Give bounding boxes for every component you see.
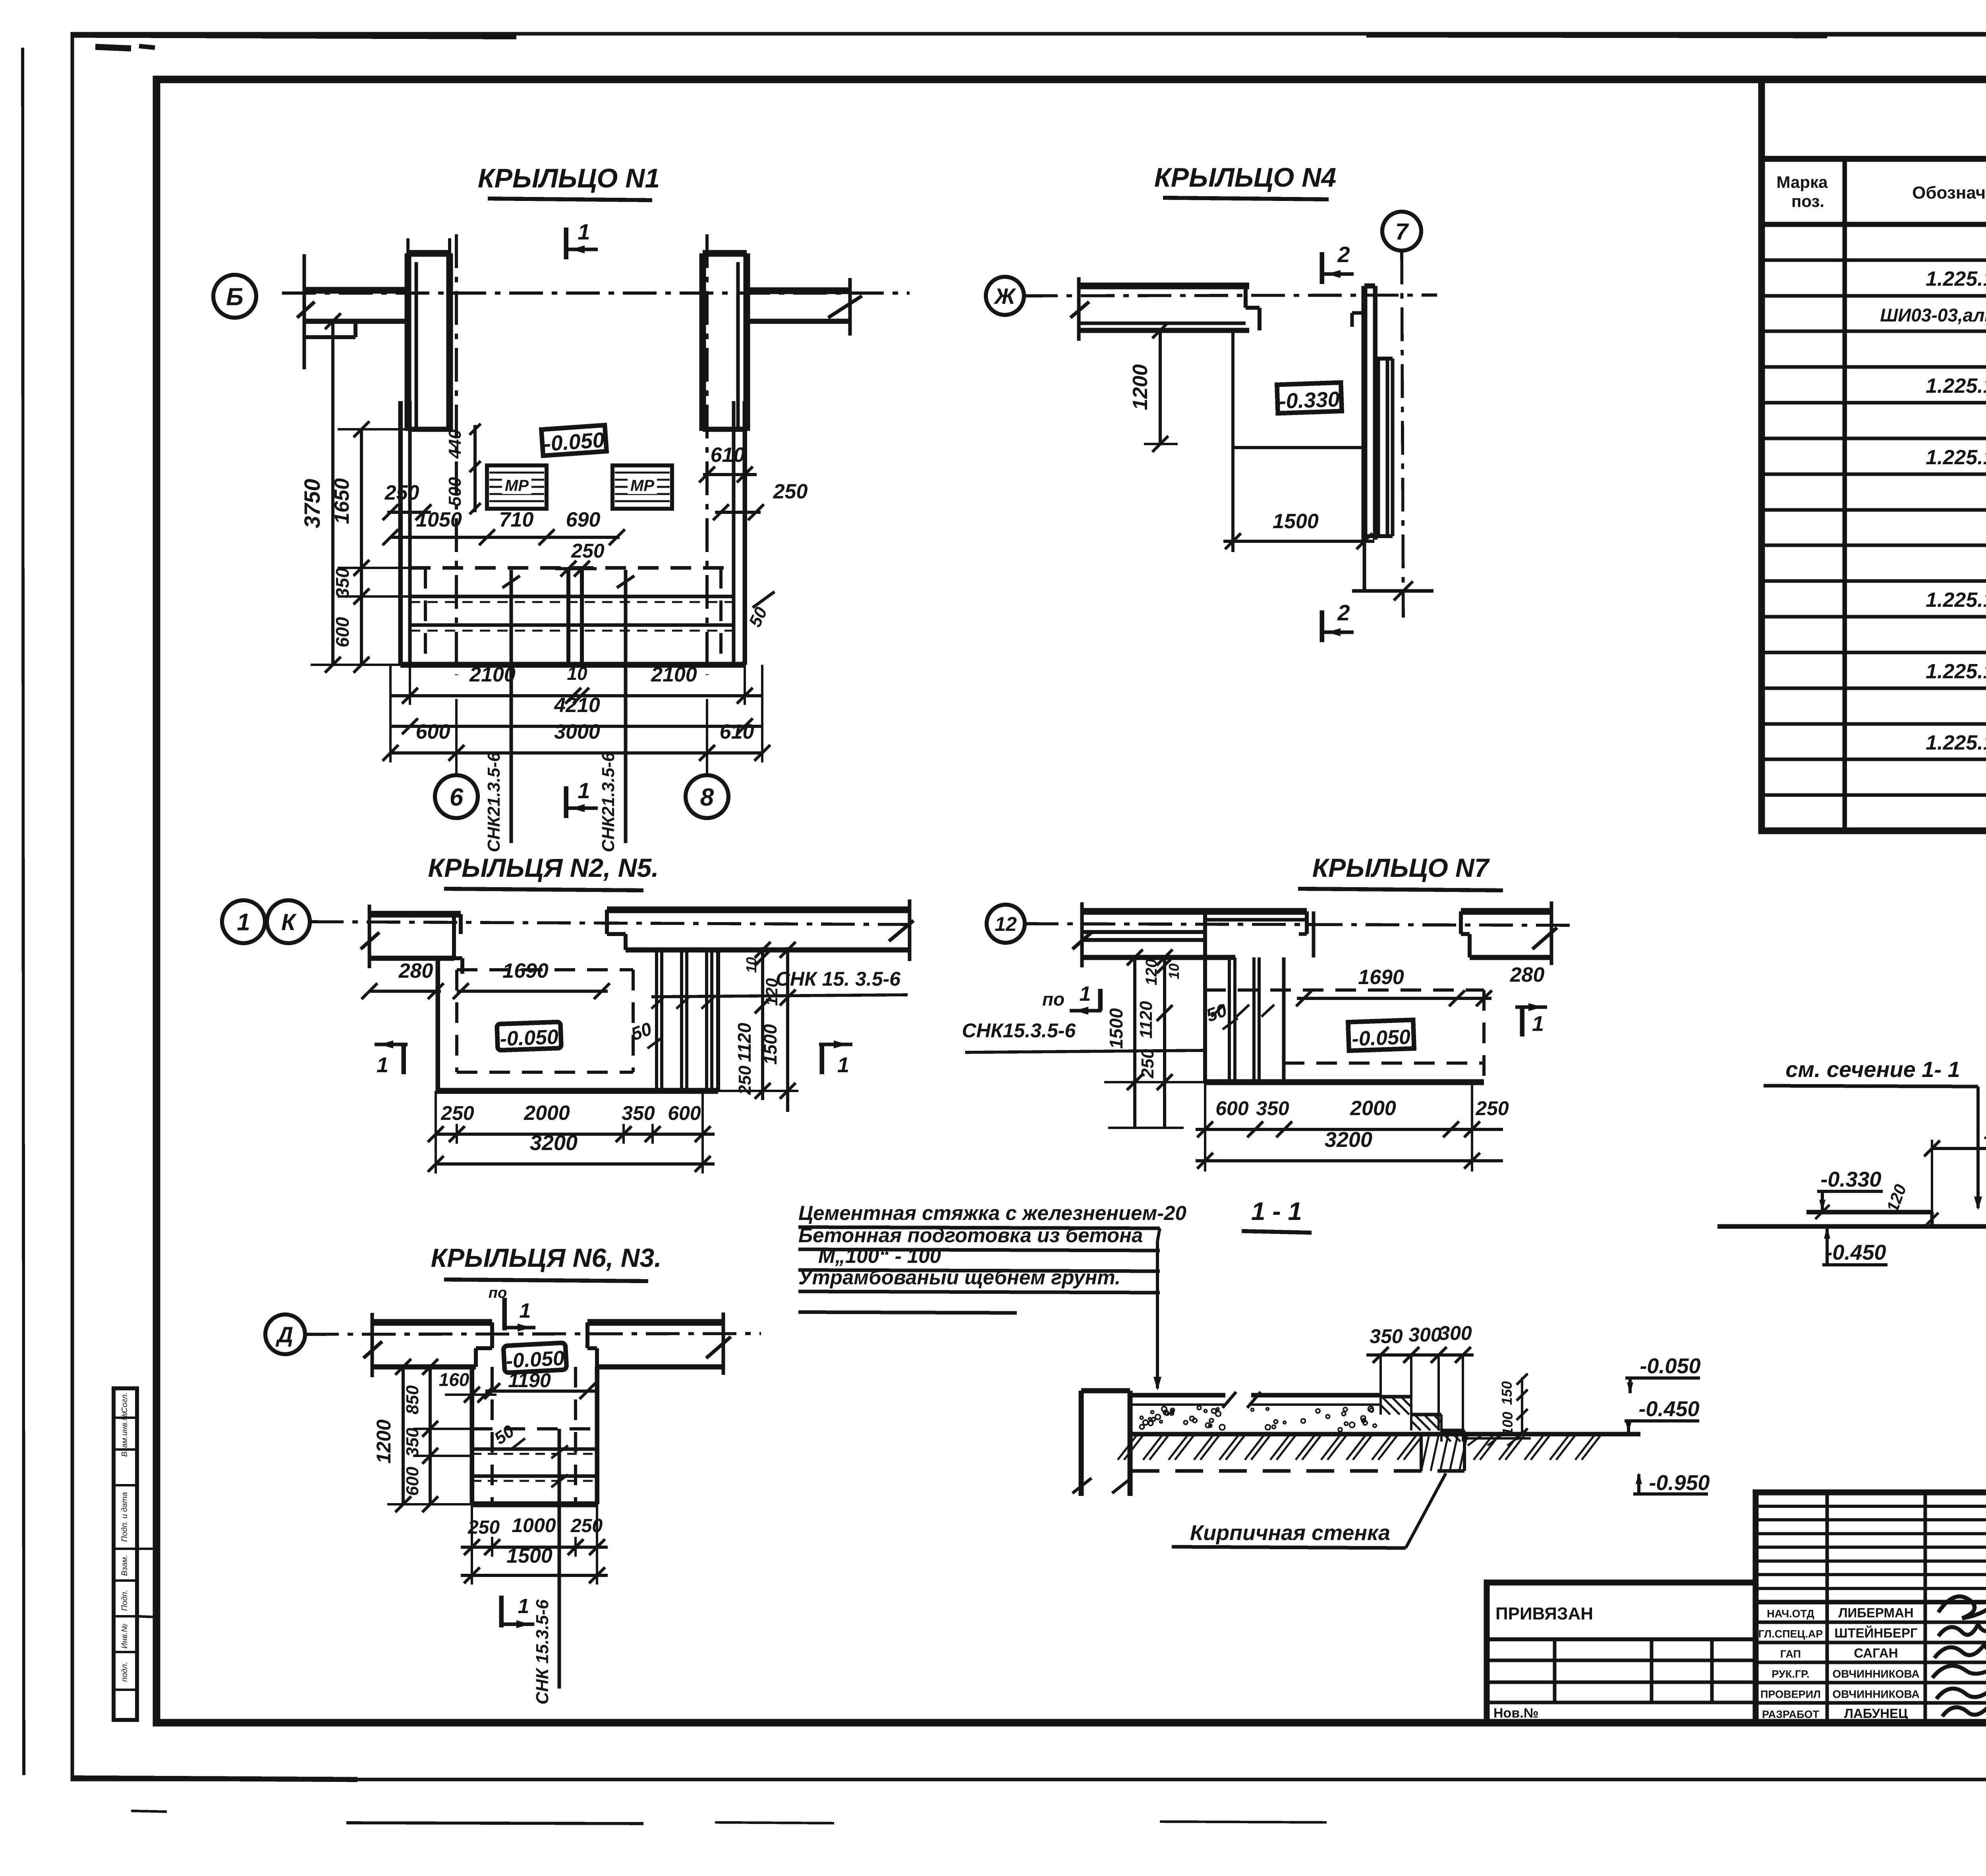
svg-text:МР: МР <box>630 477 654 494</box>
svg-text:100: 100 <box>1499 1412 1516 1436</box>
svg-text:250: 250 <box>773 480 808 503</box>
svg-text:НАЧ.ОТД: НАЧ.ОТД <box>1767 1608 1814 1620</box>
svg-text:600: 600 <box>416 720 450 743</box>
svg-text:600: 600 <box>1215 1097 1249 1119</box>
svg-text:350: 350 <box>1370 1325 1403 1347</box>
svg-text:610: 610 <box>720 720 754 743</box>
svg-text:12: 12 <box>995 913 1017 935</box>
svg-text:К: К <box>281 909 297 935</box>
svg-text:ОВЧИННИКОВА: ОВЧИННИКОВА <box>1832 1668 1919 1680</box>
svg-text:Взaм.инв.№: Взaм.инв.№ <box>120 1412 129 1457</box>
svg-text:160: 160 <box>439 1369 469 1390</box>
svg-text:1.225.1-1: 1.225.1-1 <box>1926 374 1986 398</box>
svg-text:1: 1 <box>837 1053 849 1077</box>
svg-text:280: 280 <box>1510 963 1545 986</box>
svg-text:1690: 1690 <box>1358 966 1404 989</box>
svg-text:440: 440 <box>445 429 465 459</box>
svg-text:Д: Д <box>276 1322 293 1347</box>
svg-text:2000: 2000 <box>1350 1097 1396 1120</box>
svg-text:Взaм.: Взaм. <box>120 1555 129 1576</box>
svg-text:2: 2 <box>1337 242 1350 267</box>
svg-text:ПРОВЕРИЛ: ПРОВЕРИЛ <box>1760 1689 1821 1700</box>
svg-text:250: 250 <box>1475 1097 1509 1119</box>
svg-text:1190: 1190 <box>508 1369 551 1392</box>
svg-text:1500: 1500 <box>1273 510 1319 533</box>
svg-text:600: 600 <box>668 1102 701 1124</box>
svg-text:-0.050: -0.050 <box>1640 1354 1700 1378</box>
svg-text:-0.050: -0.050 <box>543 428 605 456</box>
svg-text:10: 10 <box>1166 963 1182 979</box>
svg-text:КРЫЛЬЦО N4: КРЫЛЬЦО N4 <box>1154 162 1336 193</box>
svg-text:610: 610 <box>711 444 745 467</box>
svg-text:2000: 2000 <box>524 1102 570 1125</box>
svg-text:1050: 1050 <box>416 508 462 531</box>
svg-text:280: 280 <box>398 959 433 982</box>
svg-text:8: 8 <box>700 784 714 811</box>
svg-text:САГАН: САГАН <box>1854 1646 1898 1660</box>
svg-text:1.225.1-1: 1.225.1-1 <box>1926 446 1986 469</box>
svg-text:350: 350 <box>1256 1097 1289 1119</box>
svg-text:СНК 15. 3.5-6: СНК 15. 3.5-6 <box>776 968 901 990</box>
svg-text:1: 1 <box>1080 982 1091 1006</box>
svg-text:СНК21.3.5-6: СНК21.3.5-6 <box>599 752 618 852</box>
svg-text:ЛАБУНЕЦ: ЛАБУНЕЦ <box>1844 1706 1908 1721</box>
svg-text:1.225.1-1: 1.225.1-1 <box>1926 268 1986 291</box>
svg-text:ШИ03-03,альб.71-64: ШИ03-03,альб.71-64 <box>1880 305 1986 326</box>
svg-text:-0.050: -0.050 <box>505 1347 565 1373</box>
svg-text:1200: 1200 <box>373 1419 395 1463</box>
svg-text:Б: Б <box>226 283 243 311</box>
svg-text:КРЫЛЬЦО N7: КРЫЛЬЦО N7 <box>1312 853 1490 882</box>
svg-text:1500: 1500 <box>506 1544 553 1567</box>
svg-text:300: 300 <box>1439 1322 1472 1344</box>
svg-text:см. сечение 1- 1: см. сечение 1- 1 <box>1785 1057 1960 1082</box>
svg-text:1500: 1500 <box>760 1024 780 1065</box>
svg-text:Марка: Марка <box>1777 173 1828 191</box>
svg-text:2: 2 <box>1337 600 1350 625</box>
svg-text:710: 710 <box>499 508 534 531</box>
svg-text:3750: 3750 <box>299 479 325 529</box>
svg-text:КРЫЛЬЦЯ N2, N5.: КРЫЛЬЦЯ N2, N5. <box>428 853 659 882</box>
svg-text:Обозначение: Обозначение <box>1912 183 1986 203</box>
svg-text:1: 1 <box>1532 1012 1544 1036</box>
svg-text:ШТЕЙНБЕРГ: ШТЕЙНБЕРГ <box>1834 1625 1918 1641</box>
svg-text:1200: 1200 <box>1129 364 1152 410</box>
svg-text:поз.: поз. <box>1791 192 1824 210</box>
svg-text:690: 690 <box>566 508 601 531</box>
svg-text:1: 1 <box>237 909 250 936</box>
svg-text:КРЫЛЬЦЯ N6, N3.: КРЫЛЬЦЯ N6, N3. <box>431 1243 662 1272</box>
svg-text:Нов.№: Нов.№ <box>1493 1706 1539 1721</box>
svg-text:350: 350 <box>622 1102 655 1124</box>
svg-text:Инв.№: Инв.№ <box>120 1624 129 1649</box>
svg-text:-0.050: -0.050 <box>499 1025 558 1050</box>
svg-text:Согл.: Согл. <box>120 1392 129 1413</box>
svg-text:1: 1 <box>518 1595 529 1618</box>
svg-text:Цементная стяжка с железнен: Цементная стяжка с железнением-20 <box>798 1202 1186 1224</box>
svg-text:3200: 3200 <box>1325 1128 1372 1152</box>
svg-text:250: 250 <box>571 540 605 562</box>
svg-text:120: 120 <box>1143 959 1160 986</box>
svg-text:КРЫЛЬЦО N1: КРЫЛЬЦО N1 <box>478 163 660 193</box>
svg-text:1 - 1: 1 - 1 <box>1251 1197 1302 1226</box>
svg-text:МР: МР <box>505 477 529 494</box>
svg-text:-0.330: -0.330 <box>1279 387 1340 413</box>
svg-text:1.225.1-1: 1.225.1-1 <box>1926 731 1986 754</box>
svg-text:РУК.ГР.: РУК.ГР. <box>1772 1668 1809 1680</box>
svg-text:СНК15.3.5-6: СНК15.3.5-6 <box>962 1019 1076 1042</box>
svg-text:1: 1 <box>520 1299 531 1322</box>
svg-text:350: 350 <box>332 567 353 598</box>
svg-text:3200: 3200 <box>530 1131 578 1155</box>
svg-text:-0.050: -0.050 <box>1352 1025 1411 1050</box>
svg-text:1: 1 <box>578 778 590 803</box>
svg-text:-0.450: -0.450 <box>1638 1397 1699 1421</box>
svg-text:ГЛ.СПЕЦ.АР: ГЛ.СПЕЦ.АР <box>1758 1628 1823 1640</box>
svg-text:подл.: подл. <box>120 1662 129 1682</box>
svg-text:1500: 1500 <box>1106 1008 1126 1049</box>
svg-text:250: 250 <box>1138 1049 1157 1079</box>
svg-text:600: 600 <box>332 617 353 647</box>
svg-text:1120: 1120 <box>1136 1001 1156 1038</box>
svg-text:1.225.1-1: 1.225.1-1 <box>1926 660 1986 683</box>
svg-text:2100: 2100 <box>469 663 516 686</box>
svg-text:1690: 1690 <box>502 959 549 982</box>
svg-text:10: 10 <box>743 957 759 973</box>
svg-text:3000: 3000 <box>554 720 600 743</box>
svg-text:ГАП: ГАП <box>1780 1648 1801 1660</box>
svg-text:1650: 1650 <box>330 478 354 524</box>
svg-text:6: 6 <box>450 784 464 811</box>
svg-text:ЛИБЕРМАН: ЛИБЕРМАН <box>1838 1606 1913 1620</box>
svg-text:1.225.1-1: 1.225.1-1 <box>1926 589 1986 612</box>
svg-text:1: 1 <box>578 219 590 244</box>
svg-text:350: 350 <box>403 1428 422 1457</box>
svg-text:Подп. и дата: Подп. и дата <box>120 1492 129 1542</box>
svg-text:850: 850 <box>403 1385 422 1415</box>
svg-text:1500: 1500 <box>1984 1121 1986 1144</box>
svg-text:ПРИВЯЗАН: ПРИВЯЗАН <box>1495 1604 1593 1623</box>
svg-text:Подп.: Подп. <box>120 1590 129 1611</box>
svg-text:СНК 15.3.5-6: СНК 15.3.5-6 <box>533 1599 552 1704</box>
svg-text:7: 7 <box>1395 219 1409 245</box>
svg-text:1120: 1120 <box>734 1023 755 1062</box>
svg-text:120: 120 <box>762 978 781 1006</box>
svg-text:10: 10 <box>567 663 587 684</box>
svg-text:300: 300 <box>1408 1324 1442 1346</box>
svg-text:-0.330: -0.330 <box>1820 1168 1881 1191</box>
svg-text:150: 150 <box>1499 1381 1515 1405</box>
svg-text:250: 250 <box>384 481 419 504</box>
svg-text:4210: 4210 <box>554 694 600 717</box>
svg-text:ОВЧИННИКОВА: ОВЧИННИКОВА <box>1832 1688 1919 1700</box>
svg-text:250: 250 <box>440 1102 474 1124</box>
svg-text:по: по <box>1042 989 1064 1009</box>
svg-text:1000: 1000 <box>512 1514 556 1536</box>
svg-text:Кирпичная стенка: Кирпичная стенка <box>1190 1521 1390 1545</box>
svg-text:600: 600 <box>403 1467 422 1496</box>
svg-text:-0.450: -0.450 <box>1825 1241 1886 1264</box>
svg-text:СНК21.3.5-6: СНК21.3.5-6 <box>484 752 504 852</box>
svg-text:2100: 2100 <box>651 663 697 686</box>
svg-text:РАЗРАБОТ: РАЗРАБОТ <box>1762 1708 1820 1720</box>
svg-text:-0.950: -0.950 <box>1649 1471 1710 1495</box>
svg-text:Ж: Ж <box>993 284 1016 309</box>
svg-text:500: 500 <box>445 477 465 506</box>
svg-text:1: 1 <box>377 1053 388 1077</box>
